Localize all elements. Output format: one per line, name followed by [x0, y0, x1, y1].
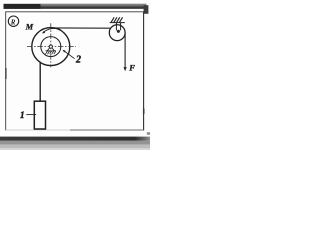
rotation arrow arc — [43, 28, 60, 32]
top scan bar — [4, 4, 147, 9]
leader arrow to label 2 — [64, 51, 75, 59]
svg-text:R: R — [10, 19, 16, 27]
wheel inner circle — [41, 37, 61, 57]
bottom scan bar — [0, 137, 150, 141]
scan speck bottom right edge — [147, 132, 150, 135]
axle support legs — [47, 48, 54, 51]
wheel outer circle — [32, 28, 70, 66]
bottom gray band — [0, 141, 150, 145]
rope from wheel down to block — [39, 62, 41, 102]
rope down from pulley with force F — [124, 33, 126, 68]
horizontal center line — [27, 46, 76, 48]
scan speck on left frame — [5, 68, 7, 79]
ceiling hatching — [111, 17, 123, 22]
F arrowhead — [124, 67, 127, 71]
ceiling line of pulley mount — [110, 22, 125, 24]
svg-text:1: 1 — [20, 111, 25, 121]
leader dash from 1 to block — [26, 114, 36, 116]
scan speck on right frame — [143, 109, 145, 115]
axle support base — [46, 50, 56, 52]
bottom light band — [0, 145, 150, 148]
figure frame right — [143, 11, 145, 130]
rotation arrowhead — [42, 31, 45, 34]
rope from wheel top to pulley — [52, 27, 111, 29]
axle circle — [49, 45, 52, 48]
block 1 — [34, 101, 45, 129]
small pulley — [109, 25, 125, 41]
axle support hatching — [45, 51, 55, 54]
pulley axle dot — [117, 30, 120, 33]
svg-text:M: M — [25, 22, 34, 32]
svg-text:2: 2 — [75, 54, 81, 65]
figure frame bottom (faint left, darker right) — [6, 129, 70, 131]
svg-text:F: F — [128, 62, 135, 72]
figure frame top — [6, 11, 144, 13]
circled mark R — [8, 16, 18, 26]
figure frame left — [5, 11, 7, 130]
top-right corner scan blob — [144, 5, 149, 14]
pulley fork bracket — [116, 23, 120, 31]
vertical center line — [50, 23, 52, 67]
